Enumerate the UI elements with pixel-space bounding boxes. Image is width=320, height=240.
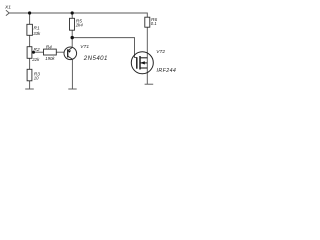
svg-text:X1: X1 bbox=[4, 4, 11, 10]
svg-text:R2: R2 bbox=[34, 47, 40, 53]
svg-text:2k4: 2k4 bbox=[75, 22, 84, 27]
svg-text:33k: 33k bbox=[33, 31, 41, 36]
svg-text:190k: 190k bbox=[45, 56, 55, 61]
svg-text:2N5401: 2N5401 bbox=[83, 55, 108, 62]
svg-text:0.1: 0.1 bbox=[151, 21, 158, 26]
svg-text:22k: 22k bbox=[31, 57, 40, 62]
svg-text:IRF244: IRF244 bbox=[157, 68, 177, 74]
svg-text:VT2: VT2 bbox=[156, 49, 165, 55]
svg-text:10: 10 bbox=[34, 76, 39, 81]
svg-text:VT1: VT1 bbox=[80, 44, 89, 50]
svg-text:R4: R4 bbox=[46, 44, 52, 50]
